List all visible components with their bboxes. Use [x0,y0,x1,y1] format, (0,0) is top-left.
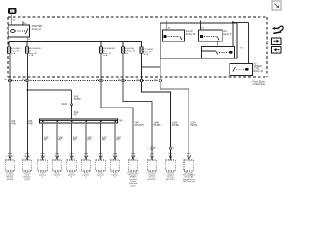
svg-text:10 A: 10 A [144,53,149,56]
svg-text:30: 30 [5,79,8,81]
svg-text:A: A [44,155,46,158]
svg-text:PK: PK [74,114,78,117]
svg-text:6: 6 [114,177,116,179]
svg-text:A: A [102,155,104,158]
svg-text:B8: B8 [168,27,171,29]
svg-text:B1: B1 [241,48,244,50]
svg-text:A: A [28,155,30,158]
svg-text:(HO2S) 1: (HO2S) 1 [147,179,157,181]
svg-text:PD: PD [10,11,13,13]
svg-text:10 A: 10 A [29,54,34,57]
svg-text:1: 1 [24,156,26,158]
svg-text:2: 2 [56,177,58,179]
svg-text:87: 87 [28,39,31,41]
svg-text:Relay 49: Relay 49 [186,33,196,36]
svg-text:PK/BK: PK/BK [74,98,81,101]
svg-text:A: A [134,155,136,158]
svg-text:(HO2S) 2: (HO2S) 2 [166,179,176,181]
svg-text:PK: PK [73,139,77,142]
svg-text:A: A [58,155,60,158]
svg-text:62: 62 [155,79,158,81]
svg-text:58: 58 [97,79,100,81]
svg-text:30: 30 [13,20,16,22]
svg-text:A: A [116,155,118,158]
svg-text:PK/BK: PK/BK [190,124,197,127]
svg-text:(ECM): (ECM) [7,179,13,181]
svg-text:A: A [87,155,89,158]
svg-text:59: 59 [118,79,121,81]
svg-text:S102: S102 [62,103,68,106]
svg-text:B: B [173,148,175,150]
svg-text:3: 3 [71,177,73,179]
svg-text:1: 1 [6,156,8,158]
svg-text:B: B [190,156,192,158]
svg-text:PK: PK [44,139,48,142]
svg-text:PNK: PNK [28,122,33,125]
svg-text:PK: PK [59,139,63,142]
svg-text:4: 4 [85,177,87,179]
svg-text:15 A: 15 A [11,52,16,55]
svg-text:ENGINE/INJ: ENGINE/INJ [103,48,115,50]
svg-text:8 A: 8 A [125,52,129,55]
svg-text:C2: C2 [11,156,14,158]
svg-text:PK/BK: PK/BK [172,124,179,127]
svg-text:Underhood: Underhood [253,83,266,86]
svg-text:A: A [73,155,75,158]
svg-text:PPL/WH: PPL/WH [135,124,144,127]
svg-text:Valve: Valve [130,185,136,187]
svg-text:(ICM): (ICM) [24,179,30,181]
svg-text:PK: PK [117,139,121,142]
svg-text:748: 748 [118,119,123,122]
svg-text:(IAT) Sensor: (IAT) Sensor [183,180,195,183]
svg-text:10 A: 10 A [103,54,108,57]
svg-text:PK/BK: PK/BK [154,124,161,127]
svg-text:Relay 8: Relay 8 [223,33,232,36]
svg-text:B: B [154,148,156,150]
svg-text:PNK: PNK [11,122,16,125]
svg-text:1: 1 [42,177,44,179]
svg-text:Relay 46: Relay 46 [254,70,264,73]
svg-text:ENGINE/INJ: ENGINE/INJ [29,48,41,50]
svg-text:Relay 47: Relay 47 [32,28,42,31]
svg-text:B6: B6 [202,27,205,29]
svg-text:PK: PK [102,139,106,142]
svg-text:60: 60 [137,79,140,81]
svg-text:PK: PK [88,139,92,142]
svg-text:5: 5 [100,177,102,179]
